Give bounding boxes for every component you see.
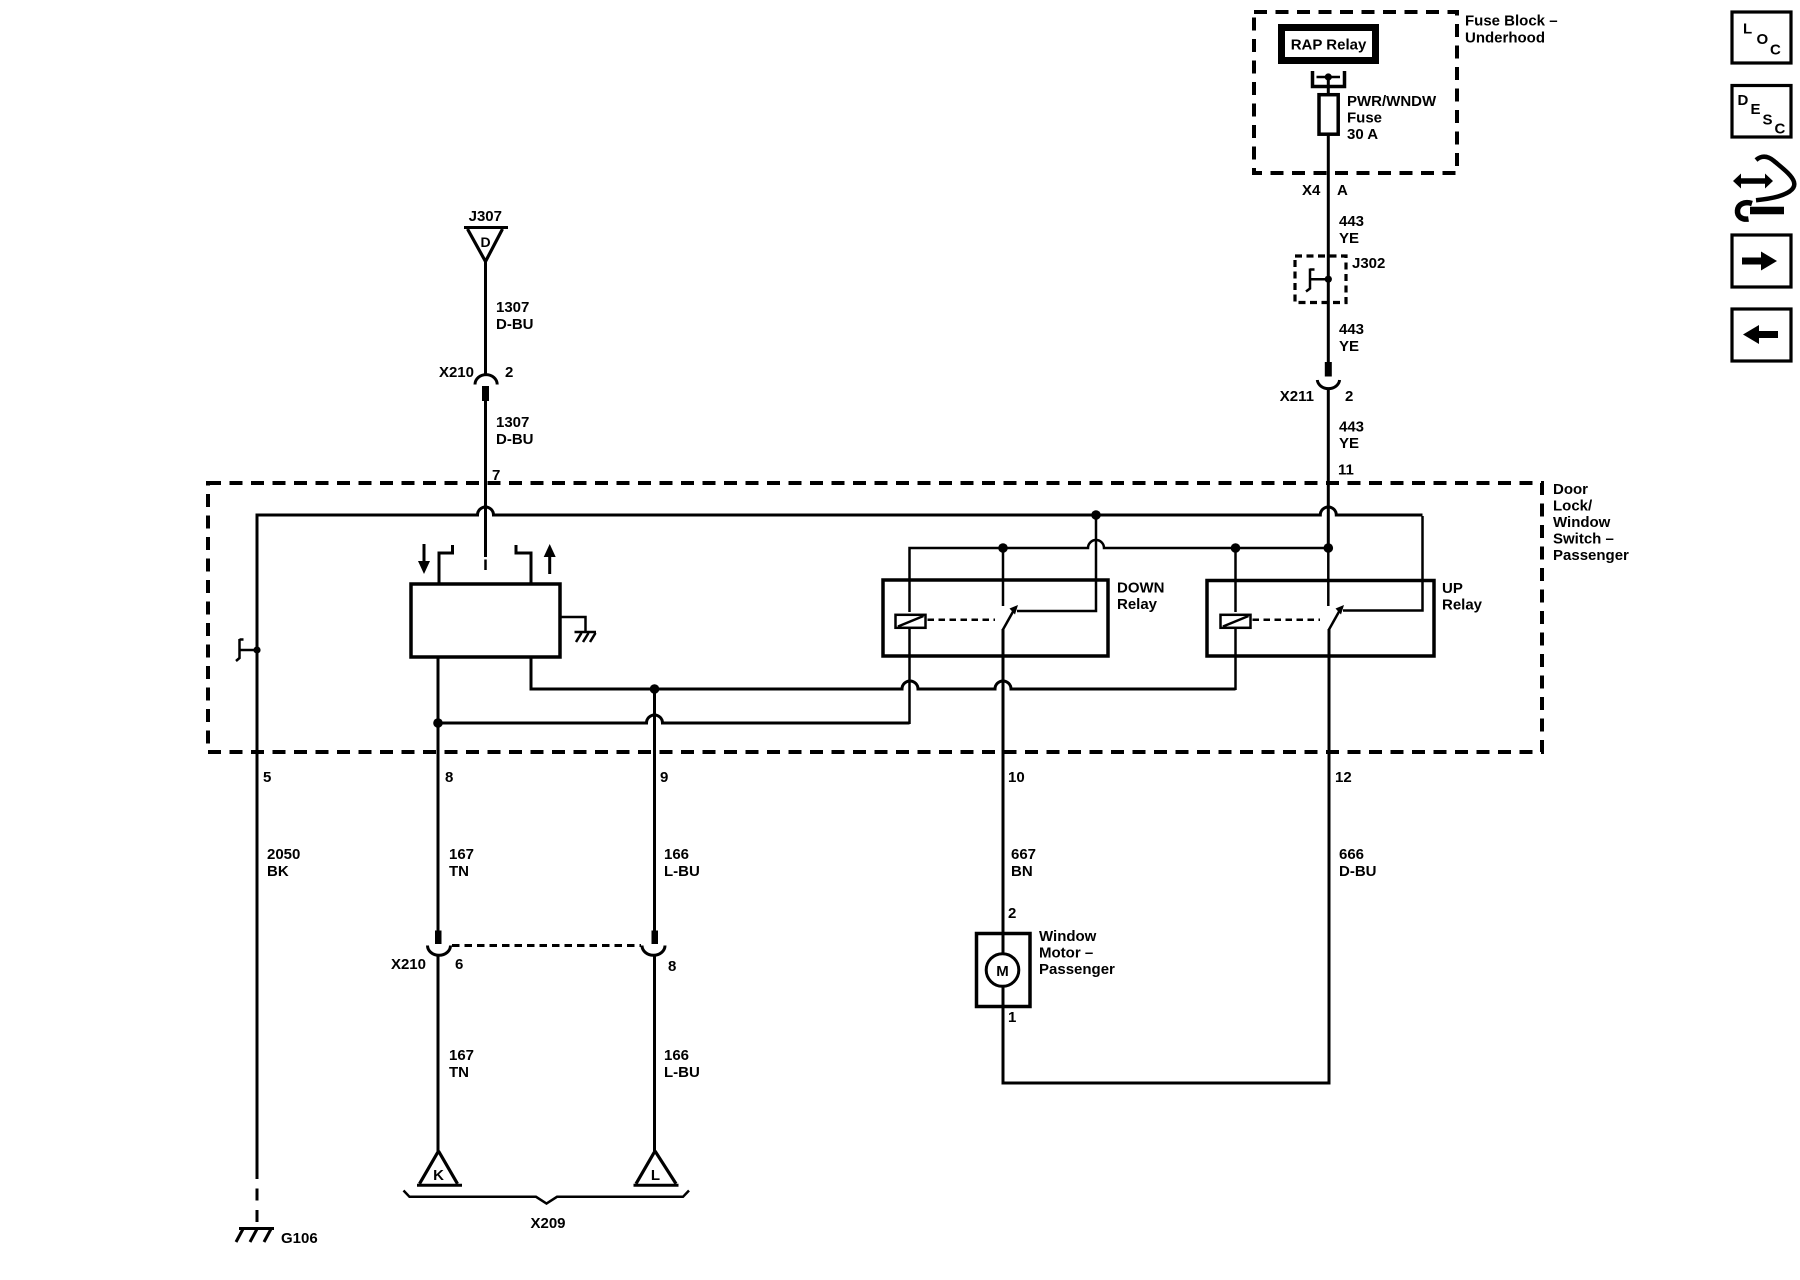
svg-text:11: 11 bbox=[1338, 462, 1354, 479]
svg-text:1307: 1307 bbox=[496, 299, 529, 316]
svg-text:DOWN: DOWN bbox=[1117, 580, 1165, 597]
svg-text:X4: X4 bbox=[1302, 182, 1321, 199]
svg-text:Motor –: Motor – bbox=[1039, 945, 1093, 962]
svg-text:A: A bbox=[1337, 182, 1348, 199]
svg-text:1: 1 bbox=[1008, 1009, 1016, 1026]
svg-text:166: 166 bbox=[664, 1047, 689, 1064]
svg-text:YE: YE bbox=[1339, 338, 1359, 355]
svg-text:S: S bbox=[1763, 112, 1773, 129]
svg-text:Fuse: Fuse bbox=[1347, 110, 1382, 127]
svg-text:BN: BN bbox=[1011, 863, 1033, 880]
svg-text:Fuse Block –: Fuse Block – bbox=[1465, 13, 1558, 30]
svg-text:C: C bbox=[1775, 121, 1786, 138]
svg-text:667: 667 bbox=[1011, 846, 1036, 863]
svg-text:12: 12 bbox=[1335, 769, 1352, 786]
svg-text:2: 2 bbox=[1008, 905, 1016, 922]
svg-text:L-BU: L-BU bbox=[664, 863, 700, 880]
svg-text:6: 6 bbox=[455, 956, 463, 973]
svg-text:Window: Window bbox=[1039, 928, 1097, 945]
svg-text:Relay: Relay bbox=[1442, 597, 1483, 614]
svg-text:L-BU: L-BU bbox=[664, 1064, 700, 1081]
svg-text:166: 166 bbox=[664, 846, 689, 863]
svg-text:167: 167 bbox=[449, 846, 474, 863]
svg-text:D-BU: D-BU bbox=[496, 431, 534, 448]
svg-text:Window: Window bbox=[1553, 514, 1611, 531]
svg-text:M: M bbox=[996, 963, 1009, 980]
svg-text:X210: X210 bbox=[391, 956, 426, 973]
svg-text:J302: J302 bbox=[1352, 255, 1385, 272]
svg-text:TN: TN bbox=[449, 863, 469, 880]
svg-text:YE: YE bbox=[1339, 435, 1359, 452]
svg-text:2: 2 bbox=[1345, 388, 1353, 405]
svg-text:9: 9 bbox=[660, 769, 668, 786]
svg-text:O: O bbox=[1757, 31, 1769, 48]
svg-text:L: L bbox=[1743, 21, 1752, 38]
svg-text:Underhood: Underhood bbox=[1465, 30, 1545, 47]
svg-text:L: L bbox=[651, 1167, 660, 1184]
svg-text:X209: X209 bbox=[530, 1215, 565, 1232]
svg-text:K: K bbox=[433, 1167, 444, 1184]
svg-text:2: 2 bbox=[505, 364, 513, 381]
svg-text:8: 8 bbox=[445, 769, 453, 786]
svg-text:443: 443 bbox=[1339, 321, 1364, 338]
svg-text:X211: X211 bbox=[1280, 388, 1314, 405]
svg-text:X210: X210 bbox=[439, 364, 474, 381]
svg-text:8: 8 bbox=[668, 958, 676, 975]
svg-text:UP: UP bbox=[1442, 580, 1463, 597]
svg-text:D: D bbox=[480, 234, 490, 250]
svg-text:30 A: 30 A bbox=[1347, 126, 1378, 143]
svg-text:666: 666 bbox=[1339, 846, 1364, 863]
svg-text:D-BU: D-BU bbox=[1339, 863, 1377, 880]
svg-text:E: E bbox=[1751, 101, 1761, 118]
svg-text:1307: 1307 bbox=[496, 414, 529, 431]
svg-text:Relay: Relay bbox=[1117, 596, 1158, 613]
svg-text:Passenger: Passenger bbox=[1039, 961, 1115, 978]
svg-text:Switch –: Switch – bbox=[1553, 531, 1614, 548]
svg-text:443: 443 bbox=[1339, 213, 1364, 230]
svg-text:RAP Relay: RAP Relay bbox=[1291, 37, 1367, 54]
svg-text:C: C bbox=[1770, 42, 1781, 59]
svg-text:5: 5 bbox=[263, 769, 271, 786]
svg-text:443: 443 bbox=[1339, 419, 1364, 436]
svg-text:G106: G106 bbox=[281, 1230, 318, 1247]
svg-text:10: 10 bbox=[1008, 769, 1025, 786]
svg-text:D: D bbox=[1738, 92, 1749, 109]
svg-text:Lock/: Lock/ bbox=[1553, 498, 1593, 515]
svg-text:TN: TN bbox=[449, 1064, 469, 1081]
svg-text:J307: J307 bbox=[469, 208, 502, 225]
svg-text:167: 167 bbox=[449, 1047, 474, 1064]
svg-text:Door: Door bbox=[1553, 481, 1588, 498]
svg-text:PWR/WNDW: PWR/WNDW bbox=[1347, 93, 1437, 110]
svg-text:D-BU: D-BU bbox=[496, 316, 534, 333]
svg-text:2050: 2050 bbox=[267, 846, 300, 863]
svg-text:YE: YE bbox=[1339, 230, 1359, 247]
svg-text:BK: BK bbox=[267, 863, 289, 880]
svg-text:Passenger: Passenger bbox=[1553, 547, 1629, 564]
